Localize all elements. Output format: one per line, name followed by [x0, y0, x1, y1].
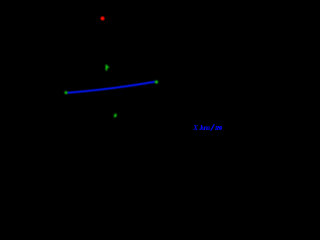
node start (green endpoint left): [65, 91, 68, 94]
comet marker (green arrow cursor): [106, 65, 110, 71]
svg-text:Juna: Juna: [198, 124, 211, 132]
svg-text:X: X: [192, 124, 198, 132]
signature (blue watermark text): [192, 124, 223, 132]
svg-text:RN9: RN9: [214, 125, 223, 132]
node end (green endpoint right): [155, 81, 158, 84]
marker (green blob bottom): [114, 114, 117, 118]
star (red fuzzy dot): [100, 16, 105, 21]
path line (blue trajectory): [67, 82, 155, 93]
